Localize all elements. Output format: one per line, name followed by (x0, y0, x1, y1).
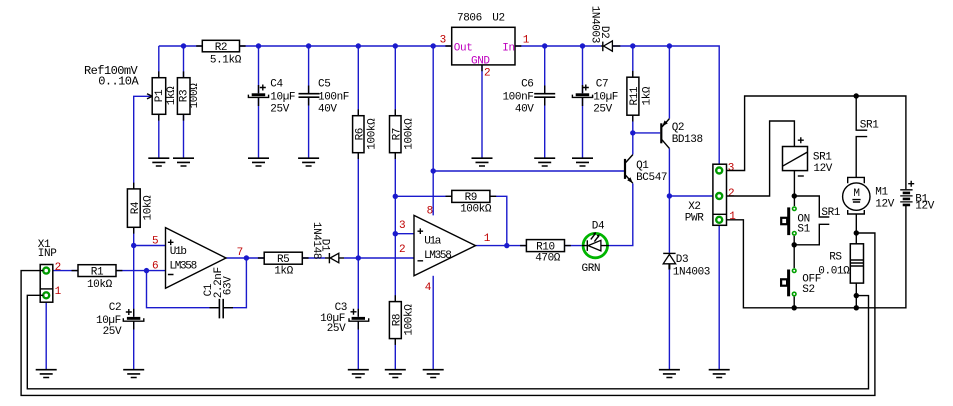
wire C1 to U1b output node (224, 258, 246, 308)
svg-text:100kΩ: 100kΩ (404, 304, 416, 336)
ground C2 (123, 370, 144, 378)
wire C5 top (308, 46, 310, 93)
ground X1 (36, 370, 57, 378)
resistor R2 (202, 40, 241, 66)
wire U1a output to R10 (476, 245, 527, 247)
svg-text:1N4003: 1N4003 (673, 266, 710, 278)
svg-text:470Ω: 470Ω (535, 253, 561, 265)
junction node dots blue (131, 43, 672, 273)
svg-text:7: 7 (237, 247, 243, 259)
svg-text:25V: 25V (327, 323, 346, 335)
wire C7 top (582, 46, 584, 93)
wire X2 pin1 to ground (718, 225, 720, 369)
svg-text:2: 2 (484, 67, 490, 79)
svg-text:R8: R8 (391, 314, 403, 326)
svg-text:LM358: LM358 (169, 260, 196, 272)
wire R8 bottom to ground (394, 339, 396, 370)
svg-text:1: 1 (523, 35, 530, 47)
wire R9 left to R7 column node (395, 195, 452, 197)
relay contact SR1 at S1 (794, 196, 841, 245)
wire P1 wiper to R4 (134, 96, 151, 189)
svg-text:3: 3 (440, 35, 446, 47)
wire R11 top (632, 46, 634, 77)
svg-text:PWR: PWR (685, 213, 704, 225)
resistor R8 (389, 302, 415, 339)
transistor Q1 (625, 155, 667, 184)
svg-text:P1: P1 (154, 89, 166, 102)
connector X1 (38, 239, 62, 302)
wire R1 to U1b pin6 (116, 270, 166, 272)
wire X1 pin2 to R1 (48, 270, 78, 272)
svg-text:U2: U2 (492, 12, 504, 24)
svg-text:0..10A: 0..10A (98, 75, 139, 89)
svg-text:C2: C2 (109, 302, 121, 314)
svg-text:4: 4 (425, 282, 432, 294)
wire Q2 collector down to node (668, 148, 670, 196)
wire U2 GND to ground (481, 65, 483, 158)
resistor R10 (526, 240, 564, 265)
motor M1 (843, 177, 895, 214)
svg-text:R7: R7 (391, 128, 403, 140)
capacitor C7 (572, 79, 618, 116)
wire +12V rail D2 to X2 pin3 (612, 46, 719, 168)
wire R7 bottom through R9 and pin3 nodes to R8 (394, 153, 396, 302)
wire U1b output to R5 (226, 257, 264, 259)
svg-text:D2: D2 (598, 26, 610, 38)
svg-text:R2: R2 (215, 42, 227, 54)
diode D2 (589, 6, 621, 52)
switch S1 ON (781, 207, 810, 236)
svg-text:10kΩ: 10kΩ (87, 279, 113, 291)
diode D3 (663, 253, 710, 278)
wire pin3 node to U1a pin3 (395, 233, 414, 235)
ground R8 (385, 370, 406, 378)
ground U1a pin4 (423, 370, 444, 378)
op-amp U1b (152, 228, 243, 289)
svg-text:R11: R11 (629, 86, 641, 105)
svg-text:S2: S2 (802, 284, 814, 296)
wire S2 to bottom rail (793, 297, 795, 308)
svg-text:5.1kΩ: 5.1kΩ (210, 54, 242, 66)
svg-text:LM358: LM358 (424, 250, 451, 262)
wire R9 right down to output node (490, 196, 507, 245)
wire R3 bottom to ground (183, 114, 185, 158)
ground D3 (659, 370, 680, 378)
svg-text:2: 2 (55, 262, 61, 274)
svg-text:D3: D3 (676, 254, 688, 266)
svg-text:GND: GND (471, 55, 490, 67)
svg-text:1: 1 (729, 211, 736, 223)
diode D1 (310, 222, 344, 263)
voltage regulator U2 (440, 12, 530, 79)
svg-text:100nF: 100nF (318, 92, 349, 104)
svg-text:0.01Ω: 0.01Ω (818, 265, 850, 277)
wire +12V rail U2 In to D2 (515, 45, 601, 47)
capacitor C3 (320, 302, 369, 335)
svg-text:Out: Out (454, 42, 473, 54)
wire node to Q2 base (633, 132, 660, 134)
wire RS bottom to rail (855, 283, 857, 308)
svg-text:1kΩ: 1kΩ (166, 86, 178, 105)
ground C3 (348, 370, 369, 378)
wire U1a pin4 to ground (432, 276, 434, 370)
wire R3 top (183, 46, 185, 78)
wire Q2 emitter to +12V rail (668, 46, 670, 119)
svg-text:8: 8 (427, 205, 433, 217)
capacitor C5 (299, 79, 350, 116)
wire S1 to S2 (793, 236, 795, 268)
label Ref100mV (84, 64, 139, 89)
svg-text:40V: 40V (515, 103, 534, 115)
svg-text:12V: 12V (813, 163, 832, 175)
wire C4 top (258, 46, 260, 93)
svg-text:BD138: BD138 (672, 134, 703, 146)
ground R3 (173, 158, 194, 166)
svg-text:1: 1 (484, 233, 491, 245)
wire node to X2 pin2 (669, 195, 716, 197)
LED D4 (582, 220, 610, 275)
svg-text:12V: 12V (915, 200, 934, 212)
svg-text:100kΩ: 100kΩ (460, 204, 492, 216)
svg-text:100kΩ: 100kΩ (404, 118, 416, 150)
wire R4 bottom through pin5 node to C2 (133, 227, 135, 316)
svg-text:INP: INP (38, 248, 57, 260)
wire node to D3 (668, 196, 670, 253)
svg-text:S1: S1 (797, 224, 810, 236)
svg-text:D1: D1 (319, 239, 331, 252)
wire node to Q1 collector (632, 133, 634, 155)
wire sense tap high to X1 pin2 (21, 233, 875, 395)
svg-text:M: M (853, 188, 859, 200)
wire C7 bottom to ground (582, 98, 584, 158)
svg-text:C5: C5 (318, 79, 330, 91)
wire feedback pin6 node down to C1 (147, 271, 219, 308)
capacitor C4 (248, 79, 295, 116)
svg-text:M1: M1 (875, 187, 888, 199)
wire relay coil to S1 node (793, 171, 795, 206)
wire C3 bottom to ground (357, 322, 359, 370)
svg-text:12V: 12V (875, 198, 894, 210)
wire +6V rail mid segment R2 to U2 Out (240, 45, 452, 47)
resistor R1 (78, 265, 116, 291)
svg-text:5: 5 (152, 236, 158, 248)
junction dots black external (792, 93, 860, 310)
ground C6 (534, 158, 555, 166)
svg-text:SR1: SR1 (821, 207, 840, 219)
capacitor C1 (203, 267, 235, 318)
svg-text:Q2: Q2 (672, 122, 684, 134)
wire D3 anode to ground (668, 270, 670, 370)
ground X2 pin1 (709, 370, 730, 378)
wire X2 pin3 to +battery rail (727, 96, 906, 189)
svg-text:R1: R1 (91, 267, 104, 279)
svg-text:GRN: GRN (582, 263, 601, 275)
wire sense tap low to X1 pin1 (27, 295, 868, 389)
svg-text:X2: X2 (688, 201, 700, 213)
svg-text:63V: 63V (223, 276, 235, 295)
svg-text:10µF: 10µF (270, 92, 295, 104)
svg-text:SR1: SR1 (860, 119, 879, 131)
wire C4 bottom to ground (258, 98, 260, 158)
svg-text:25V: 25V (270, 103, 289, 115)
resistor R4 (127, 189, 154, 227)
wire +6V rail left segment (159, 45, 203, 47)
ground C4 (248, 158, 269, 166)
svg-text:2: 2 (399, 244, 405, 256)
svg-text:100kΩ: 100kΩ (367, 118, 379, 150)
wire motor to RS (855, 214, 857, 244)
svg-text:RS: RS (829, 252, 842, 264)
wire +6V to U1a pin8 (432, 46, 434, 215)
resistor R11 (627, 77, 654, 115)
wire P1 top (158, 46, 160, 78)
svg-text:U1b: U1b (170, 246, 187, 258)
svg-text:D4: D4 (592, 220, 605, 232)
resistor R3 (177, 78, 200, 115)
svg-text:SR1: SR1 (813, 151, 832, 163)
wire pin5 node to U1b pin5 (134, 245, 166, 247)
svg-text:In: In (502, 42, 514, 54)
ground C5 (298, 158, 319, 166)
wire R11 bottom to node (632, 115, 634, 133)
connector X2 (685, 163, 737, 226)
svg-text:C7: C7 (596, 79, 608, 91)
svg-text:C6: C6 (521, 79, 533, 91)
capacitor C2 (96, 302, 144, 338)
capacitor C6 (502, 79, 555, 116)
relay contact SR1 at motor (856, 96, 879, 177)
svg-text:U1a: U1a (424, 235, 442, 247)
svg-text:2: 2 (728, 188, 734, 200)
op-amp U1a (399, 205, 491, 293)
svg-text:1kΩ: 1kΩ (642, 86, 654, 105)
svg-text:3: 3 (728, 163, 734, 175)
svg-text:BC547: BC547 (636, 172, 667, 184)
resistor R6 (353, 116, 379, 153)
wire C6 bottom to ground (544, 98, 546, 158)
svg-text:C4: C4 (270, 79, 283, 91)
svg-text:R9: R9 (465, 192, 477, 204)
wire X1 pin1 to ground (45, 297, 47, 370)
component pin stubs black (72, 46, 633, 345)
wire C5 bottom to ground (308, 98, 310, 158)
svg-text:10kΩ: 10kΩ (143, 195, 155, 221)
svg-text:40V: 40V (318, 103, 337, 115)
wire P1 bottom to ground (158, 114, 160, 158)
wire battery minus to bottom rail and X2 pin1 (727, 205, 906, 308)
svg-text:10µF: 10µF (593, 92, 618, 104)
svg-text:25V: 25V (593, 103, 612, 115)
potentiometer P1 (147, 78, 178, 115)
svg-text:7806: 7806 (457, 12, 482, 24)
svg-text:100Ω: 100Ω (189, 83, 201, 109)
svg-text:R5: R5 (277, 254, 289, 266)
svg-text:R10: R10 (536, 241, 555, 253)
svg-text:6: 6 (152, 260, 158, 272)
ground P1 (148, 158, 169, 166)
ground C7 (572, 158, 593, 166)
wire R7 top (394, 46, 396, 116)
wire D1 to U1a pin2 (344, 257, 414, 259)
svg-text:1: 1 (55, 286, 62, 298)
resistor R7 (390, 116, 416, 153)
svg-text:1kΩ: 1kΩ (274, 266, 293, 278)
resistor R5 (264, 252, 302, 278)
shunt resistor RS (818, 244, 863, 283)
wire R10 to LED D4 (565, 245, 583, 247)
svg-text:Q1: Q1 (636, 160, 649, 172)
wire X2 pin2 to relay coil (727, 121, 795, 196)
svg-text:R6: R6 (354, 128, 366, 140)
battery B1 (900, 181, 935, 213)
wire C2 bottom to ground (133, 322, 135, 370)
wire R6 top (357, 46, 359, 116)
relay coil SR1 (783, 137, 833, 176)
switch S2 OFF (781, 269, 821, 296)
resistor R9 (452, 190, 492, 215)
wire R6 bottom through D1 node to C3 (357, 153, 359, 317)
wire node to Q1 base (433, 170, 624, 172)
svg-text:R4: R4 (130, 201, 142, 214)
transistor Q2 (661, 119, 702, 149)
ground U2 GND (472, 158, 493, 166)
svg-text:25V: 25V (103, 326, 122, 338)
wire C6 top (544, 46, 546, 93)
svg-text:3: 3 (399, 220, 405, 232)
svg-text:100nF: 100nF (502, 92, 533, 104)
wire R5 to D1 (302, 257, 325, 259)
wire LED D4 to Q1 emitter (609, 183, 633, 245)
